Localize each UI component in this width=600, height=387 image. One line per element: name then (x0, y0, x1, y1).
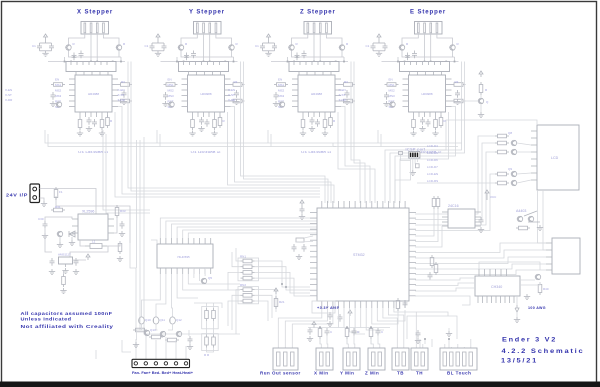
svg-text:L1: L1 (92, 240, 96, 244)
svg-text:R31: R31 (55, 205, 61, 209)
MCU bottom caps (312, 301, 352, 327)
filament detect connector J6 (546, 238, 580, 274)
svg-text:LCD: LCD (551, 156, 559, 160)
bed sense resistors group 1 (202, 307, 219, 329)
ICSP wires and ground (411, 158, 418, 170)
flyback cap (187, 336, 193, 350)
resistor array group 1 (238, 255, 259, 281)
wire reg to LDO (45, 218, 120, 257)
wire MCU to EEPROM (415, 209, 442, 247)
MCU left pins (310, 213, 317, 296)
bottom thick border bar (0, 382, 600, 387)
EEPROM pullups (432, 196, 484, 233)
24V input connector J24 (30, 184, 40, 203)
svg-text:Q11: Q11 (160, 318, 166, 322)
output cap C31 (119, 221, 125, 237)
input cap C30 (38, 217, 72, 239)
inductor L1 (85, 240, 107, 249)
svg-text:Q12: Q12 (176, 318, 182, 322)
svg-text:F1: F1 (59, 190, 63, 194)
svg-text:Not affiliated with Creality: Not affiliated with Creality (21, 324, 114, 329)
Y stepper driver block (118, 22, 245, 155)
Z stepper driver block (228, 22, 355, 155)
wires MCU to LCD (415, 120, 537, 231)
wire bus Y stepper to MCU (228, 62, 335, 204)
MCU U3 (317, 208, 409, 301)
svg-text:LCD-D6: LCD-D6 (427, 158, 438, 162)
EEPROM U5 (442, 204, 481, 228)
svg-text:CH340: CH340 (491, 285, 502, 289)
svg-text:Z Min: Z Min (365, 371, 379, 376)
TB connector J11 (392, 348, 409, 370)
output resistor R33 (115, 205, 126, 218)
svg-text:13/5/21: 13/5/21 (501, 358, 538, 365)
USB UART ground chain (514, 296, 520, 323)
small ground right of U6 (524, 294, 530, 300)
svg-text:R21: R21 (279, 300, 285, 304)
svg-text:Q10: Q10 (145, 318, 151, 322)
output resistor R34 (117, 241, 123, 262)
VCC arrow endstop bus (312, 322, 316, 328)
LCD connector J13 (531, 125, 579, 190)
transistor Q5 (201, 276, 213, 284)
svg-text:X Min: X Min (314, 371, 329, 376)
svg-text:R R: R R (204, 353, 210, 357)
wires MCU bottom to endstop connectors (278, 308, 471, 350)
USB UART IC U6 (475, 269, 520, 303)
BL touch wire loop (407, 316, 457, 349)
svg-text:R33: R33 (120, 209, 126, 213)
wires shift register bottom (142, 268, 241, 317)
svg-text:TH: TH (416, 371, 423, 376)
ground near terminal (133, 339, 139, 348)
wire bus Z stepper to MCU (338, 62, 375, 204)
wires shift register top (151, 218, 320, 244)
svg-text:STM32: STM32 (353, 253, 365, 257)
svg-text:LCD-RS: LCD-RS (427, 179, 438, 183)
heater terminal wires (96, 324, 189, 359)
svg-text:Q9: Q9 (508, 167, 512, 171)
svg-text:4.2.2 Schematic: 4.2.2 Schematic (502, 348, 585, 355)
svg-text:A4403: A4403 (516, 209, 526, 213)
wire enable bus across steppers (45, 130, 462, 147)
MOSFET Q11 bed (153, 317, 165, 324)
resistor pair right (428, 255, 438, 280)
bed sense resistors group 2 (202, 334, 219, 357)
wires LCD to filament connector (538, 190, 547, 250)
LDO input cap C32 (49, 258, 55, 275)
svg-text:74HC595: 74HC595 (177, 255, 190, 259)
svg-text:RN2: RN2 (240, 283, 246, 287)
MCU crystal circuit (292, 236, 314, 260)
svg-text:Unless indicated: Unless indicated (21, 317, 72, 322)
divider resistor R35 (60, 260, 86, 294)
svg-text:LCD-D4: LCD-D4 (427, 144, 438, 148)
ICSP pad left (399, 152, 411, 161)
svg-text:Ender 3 V2: Ender 3 V2 (502, 337, 557, 344)
svg-text:ICSP port: ICSP port (406, 148, 426, 152)
E stepper driver block (339, 22, 466, 155)
junction dots BL loop (424, 338, 450, 340)
svg-text:TB: TB (397, 371, 404, 376)
svg-text:24C16: 24C16 (448, 204, 459, 208)
Z min connector J10 (368, 348, 385, 370)
ground above BL touch (446, 328, 452, 337)
LCD buffer transistors column (495, 131, 517, 186)
wire ICSP to MCU (395, 166, 411, 201)
svg-text:BL Touch: BL Touch (447, 371, 471, 376)
pass transistor Q20 (57, 231, 63, 247)
wire bus E stepper to MCU (385, 62, 465, 204)
LDO output cap C33 (73, 258, 79, 275)
svg-text:100 AWG: 100 AWG (528, 306, 546, 310)
ICSP pad resistor (410, 164, 420, 176)
svg-text:X Stepper: X Stepper (77, 10, 113, 16)
svg-text:XL2596: XL2596 (82, 210, 94, 214)
LDO regulator U9 (58, 253, 73, 274)
resistor array group 2 (238, 283, 259, 304)
MCU decoupling left (299, 200, 305, 220)
driver transistor Q13 (133, 328, 156, 336)
wire 24V to regulator (40, 189, 131, 244)
Y min connector J9 (343, 348, 360, 370)
screw terminal block TB1 (132, 359, 190, 367)
svg-text:AMS1117: AMS1117 (58, 253, 71, 257)
driver transistor Q14 (149, 331, 166, 339)
ground at 24V input (41, 201, 47, 207)
svg-text:Q8: Q8 (508, 131, 512, 135)
MCU right pins (409, 213, 416, 296)
svg-text:+3.3V AMS: +3.3V AMS (317, 306, 340, 310)
svg-text:VCC: VCC (490, 195, 497, 199)
wires resistor arrays to MCU (228, 248, 310, 334)
MOSFET Q10 fan (139, 317, 151, 324)
runout sensor connector J7 (273, 348, 298, 370)
svg-text:Run Out sensor: Run Out sensor (260, 371, 301, 376)
junction dots endstop bus (319, 327, 372, 329)
wires MCU right to connectors (415, 243, 546, 305)
input filter resistor R30 (54, 187, 63, 200)
op amp group A4403 (516, 209, 543, 231)
svg-text:LCD-D7: LCD-D7 (427, 165, 438, 169)
BL Touch connector J15 (440, 348, 477, 370)
wire bus X stepper to MCU (115, 62, 320, 198)
endstop RC filters (274, 288, 285, 309)
svg-text:24V I/P: 24V I/P (6, 193, 28, 198)
svg-text:E Stepper: E Stepper (410, 10, 446, 16)
MOSFET Q12 heater (170, 317, 182, 324)
shift register U2 (157, 238, 213, 274)
wires to sense resistors (194, 303, 222, 352)
transistor QE1 right of E stepper (462, 95, 489, 118)
schottky diode D1 (69, 231, 75, 246)
svg-text:Y Stepper: Y Stepper (189, 10, 225, 16)
svg-text:C30: C30 (38, 217, 44, 221)
svg-text:All capacitors assumed 100nF: All capacitors assumed 100nF (21, 311, 113, 316)
TH connector J14 (411, 348, 428, 370)
wire power rails down (130, 137, 240, 334)
buck regulator U8 (72, 210, 114, 241)
MCU top pins (322, 201, 405, 208)
svg-text:Fan- Fan+ Bed- Bed+ Heat-Heat+: Fan- Fan+ Bed- Bed+ Heat-Heat+ (132, 370, 194, 375)
wire MCU to CH340 (415, 262, 540, 291)
svg-text:Z Stepper: Z Stepper (300, 10, 336, 16)
svg-text:Y Min: Y Min (340, 371, 354, 376)
svg-text:RN1: RN1 (240, 255, 246, 259)
pullup resistor RE1 right of E stepper (479, 71, 488, 95)
transistor Q16 (535, 274, 549, 295)
endstop pullup bus (308, 328, 390, 345)
VCC feed to LCD area (485, 190, 497, 200)
X stepper driver block (5, 22, 132, 155)
driver transistor Q15 (165, 331, 182, 342)
svg-text:LCD-D5: LCD-D5 (427, 151, 438, 155)
svg-text:LCD-EN: LCD-EN (427, 172, 438, 176)
wire bus into MCU left (103, 130, 336, 213)
svg-text:Q5: Q5 (208, 276, 212, 280)
feedback resistor R31 (51, 205, 65, 212)
LCD net label column (427, 144, 438, 183)
junction dots resistor bus (281, 283, 287, 288)
VCC arrow mid (86, 254, 90, 260)
X min connector J8 (316, 348, 333, 370)
ICSP header J12 (409, 152, 420, 158)
MCU bottom pins (322, 301, 405, 308)
svg-text:Q13: Q13 (150, 328, 156, 332)
svg-text:R40: R40 (543, 287, 549, 291)
